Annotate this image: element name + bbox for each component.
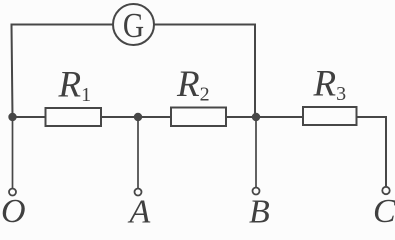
svg-text:B: B: [249, 193, 270, 224]
svg-text:A: A: [128, 193, 151, 224]
svg-text:O: O: [1, 193, 26, 224]
svg-text:C: C: [373, 193, 395, 224]
svg-text:G: G: [123, 6, 144, 45]
